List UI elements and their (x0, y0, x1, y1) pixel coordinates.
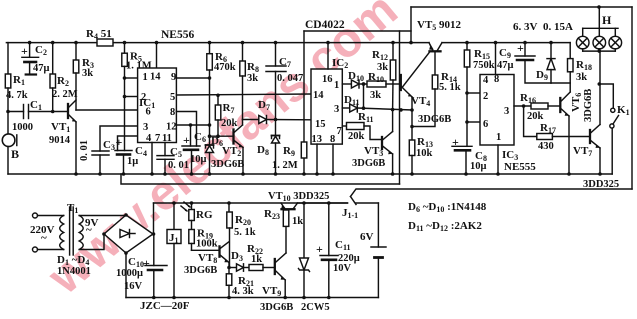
svg-text:8: 8 (170, 107, 175, 118)
svg-text:2CW5: 2CW5 (301, 302, 330, 313)
wire module left edge x304 (to R9) (303, 31, 305, 142)
svg-text:RG: RG (196, 209, 213, 221)
wire D7 anode (243, 119, 259, 121)
resistor R10 (362, 81, 400, 87)
svg-text:10μ: 10μ (470, 161, 487, 172)
svg-text:430: 430 (538, 141, 554, 152)
svg-text:3DG6B: 3DG6B (260, 302, 293, 313)
svg-text:12: 12 (166, 122, 177, 133)
wire bridge minus down (125, 253, 127, 298)
svg-text:3DG6B: 3DG6B (583, 89, 594, 122)
svg-text:~: ~ (86, 224, 92, 236)
wire R9 bottom (303, 158, 305, 174)
diode D6 (206, 145, 214, 174)
svg-text:3DG6B: 3DG6B (184, 265, 217, 276)
svg-text:H: H (602, 13, 612, 27)
capacitor C7 (266, 43, 286, 120)
wire VT2 base (210, 135, 234, 137)
wire IC1 pin8 (176, 112, 196, 147)
svg-text:3k: 3k (377, 62, 388, 73)
terminal input bottom (33, 247, 38, 252)
IC2 pin numbers (312, 74, 342, 145)
transistor VT6 (560, 92, 570, 174)
wire supply outline x411 (410, 7, 412, 43)
capacitor C1 (8, 105, 68, 119)
relay contact J1-1 (351, 197, 379, 205)
wire bridge plus up (153, 203, 155, 234)
wire supply outline y31 (304, 30, 411, 32)
svg-text:B: B (11, 147, 19, 161)
svg-text:JZC—20F: JZC—20F (140, 300, 190, 312)
resistor R21 (226, 268, 232, 300)
svg-text:1000μ: 1000μ (116, 268, 143, 279)
svg-text:4: 4 (146, 133, 152, 144)
svg-text:10k: 10k (416, 148, 433, 159)
diode D10 (351, 80, 367, 88)
svg-text:3: 3 (334, 104, 339, 115)
svg-text:7: 7 (337, 126, 342, 137)
wire IC1 pin11 down (164, 143, 166, 156)
wire IC1 pin12 (176, 124, 209, 126)
transistor VT2 (234, 120, 244, 175)
svg-text:100k: 100k (196, 239, 218, 250)
svg-text:7: 7 (155, 133, 160, 144)
resistor R5 (122, 43, 128, 151)
wire supply outline right x632 (631, 7, 633, 189)
transistor VT5 series pass (429, 43, 442, 75)
svg-text:6V: 6V (360, 231, 374, 243)
capacitor C11 (320, 201, 338, 299)
switch K1 (598, 82, 619, 174)
terminal input top (33, 213, 38, 218)
svg-text:+: + (316, 242, 323, 256)
wire D9 R18 node (551, 82, 570, 84)
svg-text:1k: 1k (292, 216, 303, 227)
svg-text:2: 2 (483, 91, 488, 102)
wire IC3 pin2 (467, 92, 480, 94)
svg-text:1μ: 1μ (127, 156, 138, 167)
wire top rail of supply (154, 202, 348, 204)
wire IC3 pins 4 8 up (495, 43, 497, 75)
wire secondary bottom to bridge (79, 234, 104, 250)
transistor VT8 (220, 242, 230, 268)
wire C6 top (189, 123, 193, 146)
svg-text:+: + (183, 133, 190, 147)
svg-text:9: 9 (171, 72, 176, 83)
svg-text:+: + (143, 256, 150, 270)
resistor R23 (283, 210, 289, 226)
svg-text:3k: 3k (82, 68, 93, 79)
resistor R11 (347, 123, 381, 140)
wire battery feed y189 (351, 189, 633, 197)
svg-text:14: 14 (150, 72, 161, 83)
svg-text:NE556: NE556 (161, 29, 194, 41)
svg-text:5. 1k: 5. 1k (439, 82, 461, 93)
transistor VT4 (401, 52, 430, 129)
resistor R12 (390, 43, 396, 110)
resistor R9 (301, 142, 307, 158)
svg-text:3DG6B: 3DG6B (418, 114, 451, 125)
wire supply outline top y7 (411, 6, 632, 8)
IC U1 NE556 box (138, 68, 177, 143)
wire VT8 base (192, 249, 220, 251)
resistor R18 (568, 43, 574, 92)
resistor R15 (464, 43, 470, 124)
diode D3 (229, 264, 249, 271)
wire IC1 pin7 down (151, 143, 153, 175)
svg-text:2. 2M: 2. 2M (52, 89, 78, 100)
svg-text:2: 2 (141, 92, 146, 103)
IC U2 CD4022 box (311, 69, 342, 144)
svg-text:6: 6 (146, 107, 151, 118)
svg-text:750k: 750k (473, 60, 495, 71)
wire top rail right of VT5 (442, 42, 570, 44)
svg-text:1: 1 (496, 132, 501, 143)
resistor R8 (240, 43, 246, 120)
svg-text:13: 13 (312, 134, 323, 145)
capacitor C8 (452, 146, 472, 174)
resistor R6 (207, 43, 213, 145)
capacitor C9 (515, 43, 551, 83)
transistor VT9 (275, 226, 287, 299)
svg-text:0. 01: 0. 01 (168, 160, 189, 171)
svg-text:3DD325: 3DD325 (583, 179, 619, 190)
wire IC2 pin16 up (327, 43, 329, 69)
wire IC3 pin6 (467, 121, 480, 123)
svg-text:VT10 3DD325: VT10 3DD325 (268, 191, 329, 203)
wire R17 branch (524, 106, 537, 137)
svg-text:11: 11 (162, 133, 172, 144)
svg-text:+: + (116, 135, 123, 149)
transistor VT7 (590, 51, 600, 174)
svg-text:+: + (452, 135, 459, 149)
resistor R13 (409, 127, 415, 175)
svg-text:20k: 20k (221, 118, 238, 129)
resistor R19 (189, 230, 195, 251)
svg-text:1: 1 (334, 80, 339, 91)
wire IC1 pin3 to C3 (100, 126, 138, 151)
wire IC3 pin3 (514, 105, 531, 107)
resistor R14 (412, 75, 438, 127)
svg-text:CD4022: CD4022 (305, 19, 345, 31)
wire module right edge x399.5 (399, 31, 401, 184)
svg-text:8: 8 (330, 134, 335, 145)
svg-text:1000: 1000 (12, 122, 33, 133)
wire VT1 collector to IC1 pin6 (76, 109, 138, 111)
node ground dots (74, 172, 602, 176)
wire IC2 pin3 (342, 107, 349, 109)
svg-text:NE555: NE555 (504, 161, 536, 173)
capacitor C6 (182, 146, 200, 174)
svg-text:4. 7k: 4. 7k (6, 90, 28, 101)
wire IC1 pin14 up (156, 43, 158, 68)
wire IC2 pin1 (342, 83, 351, 85)
svg-text:+: + (21, 44, 28, 58)
wire IC1 pin4 L (118, 136, 138, 151)
wire IC2 pin7 (342, 125, 346, 127)
svg-text:4. 3k: 4. 3k (232, 286, 254, 297)
transistor VT10 series pass (281, 203, 348, 209)
svg-text:R4 51: R4 51 (86, 28, 112, 41)
wire IC1 pin1 (125, 77, 138, 79)
bridge rectifier D1-D4 (102, 213, 155, 255)
svg-text:10μ: 10μ (190, 154, 207, 165)
svg-text:14: 14 (313, 90, 324, 101)
IC3 pin numbers (483, 74, 509, 143)
diode D7 (259, 116, 311, 124)
svg-text:1N4001: 1N4001 (57, 266, 91, 277)
capacitor C3 (92, 151, 109, 174)
svg-text:9014: 9014 (49, 135, 71, 146)
svg-text:0. 047: 0. 047 (277, 73, 303, 84)
wire IC2 pin13 down (316, 144, 318, 174)
svg-text:15: 15 (315, 119, 326, 130)
wire secondary top to bridge (79, 215, 126, 217)
svg-text:20k: 20k (527, 111, 544, 122)
svg-text:1. 2M: 1. 2M (272, 160, 298, 171)
svg-text:3: 3 (504, 106, 509, 117)
svg-text:3: 3 (143, 122, 148, 133)
wire C8 top (466, 122, 468, 146)
battery GB 6V (371, 203, 386, 298)
svg-text:3DG6B: 3DG6B (211, 159, 244, 170)
svg-text:1. 1M: 1. 1M (126, 61, 152, 72)
resistor R3 (73, 43, 79, 110)
resistor R16 (522, 103, 560, 109)
wire IC1 pin9 to R6 (176, 77, 209, 79)
resistor R20 (227, 201, 233, 269)
diode D9 (547, 43, 555, 83)
capacitor C10 (145, 234, 167, 299)
capacitor C4 (115, 151, 132, 175)
svg-text:3k: 3k (576, 72, 587, 83)
relay coil J1 (167, 201, 181, 299)
wire primary top (38, 215, 64, 217)
svg-text:470k: 470k (214, 62, 236, 73)
transistor VT3 (382, 110, 393, 174)
wire IC1 pin5 to IC2 pin14 (176, 94, 311, 95)
svg-text:VT5 9012: VT5 9012 (417, 19, 462, 32)
svg-text:8: 8 (494, 74, 499, 85)
photoresistor RG (181, 201, 194, 229)
wire IC3 pin1 down (497, 145, 499, 174)
resistor R7 (215, 94, 221, 139)
svg-text:5: 5 (170, 92, 175, 103)
svg-text:0. 01: 0. 01 (79, 140, 90, 161)
svg-text:+: + (517, 41, 524, 55)
svg-text:1: 1 (143, 72, 148, 83)
transistor VT1 (68, 100, 77, 174)
resistor R17 (537, 134, 590, 140)
svg-text:6. 3V 0. 15A: 6. 3V 0. 15A (513, 21, 573, 33)
svg-text:1k: 1k (251, 254, 262, 265)
svg-text:20k: 20k (348, 131, 365, 142)
capacitor C2 (22, 43, 39, 75)
wire bottom rail of supply (126, 297, 378, 299)
wire IC2 pin8 down (332, 144, 334, 174)
zener D5 2CW5 (299, 201, 310, 299)
svg-text:16: 16 (322, 74, 333, 85)
svg-text:3DG6B: 3DG6B (352, 158, 385, 169)
diode D11 (350, 84, 414, 112)
lamp group H (576, 7, 621, 53)
wire IC1 pin2 (125, 96, 138, 98)
diode D8 (272, 120, 280, 175)
wire module bottom edge y184 (121, 174, 400, 184)
svg-text:4: 4 (483, 75, 489, 86)
resistor R22 (249, 265, 275, 271)
svg-text:47μ: 47μ (497, 60, 514, 71)
resistor R4 (97, 39, 113, 46)
node rail dots (28, 5, 601, 44)
wire primary bottom (38, 249, 64, 251)
IC1 pin numbers (141, 72, 177, 145)
transformer T1 (60, 207, 83, 255)
wire top rail left (6, 42, 429, 44)
capacitor C5 (157, 156, 174, 174)
svg-text:47μ: 47μ (33, 63, 50, 74)
svg-text:D6 ~D10 :1N4148: D6 ~D10 :1N4148 (408, 201, 487, 214)
svg-text:3k: 3k (247, 73, 258, 84)
wire bottom ground rail (8, 173, 612, 175)
svg-text:5. 1k: 5. 1k (234, 227, 256, 238)
resistor R1 (5, 43, 11, 114)
resistor R2 (50, 43, 56, 114)
svg-text:6: 6 (483, 119, 488, 130)
svg-text:10V: 10V (333, 263, 352, 274)
IC U3 NE555 box (480, 75, 514, 146)
microphone B (2, 112, 16, 175)
svg-text:3k: 3k (370, 90, 381, 101)
svg-text:~: ~ (41, 232, 47, 244)
svg-text:16V: 16V (124, 281, 143, 292)
